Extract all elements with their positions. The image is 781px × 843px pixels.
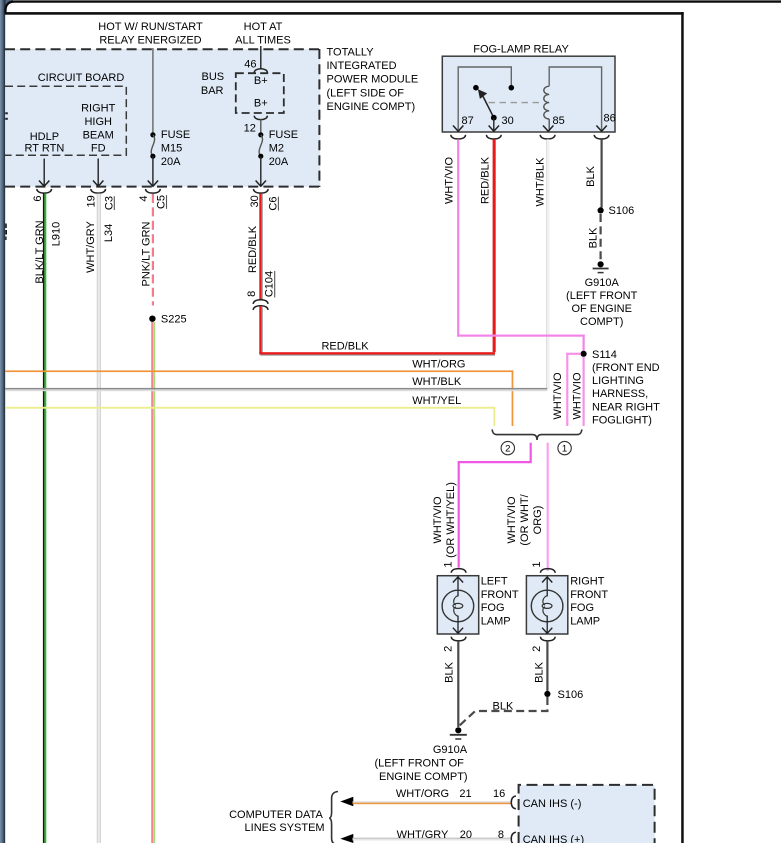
wire WHT/VIO (OR WHT/YEL) to left lamp: [459, 443, 531, 568]
svg-text:(FRONT END: (FRONT END: [592, 362, 660, 374]
wire BLK left lamp: [457, 641, 459, 727]
svg-text:C104: C104: [263, 271, 275, 297]
svg-text:LAMP: LAMP: [481, 616, 511, 628]
svg-text:FOG: FOG: [570, 602, 594, 614]
svg-text:20A: 20A: [269, 156, 289, 168]
svg-text:86: 86: [604, 113, 616, 125]
relay contact node NO: [509, 85, 515, 91]
option circle 2: [501, 441, 514, 454]
ground G910A lower: [455, 727, 461, 733]
connector arc below left lamp pin 2: [451, 637, 466, 641]
svg-text:30: 30: [249, 195, 261, 207]
svg-text:8: 8: [246, 291, 258, 297]
svg-text:FRONT: FRONT: [570, 589, 608, 601]
svg-text:BLK: BLK: [444, 661, 456, 682]
svg-text:1: 1: [531, 561, 543, 567]
svg-text:16: 16: [493, 788, 505, 800]
wire WHT/ORG horizontal rail: [5, 370, 513, 372]
svg-text:WHT/YEL: WHT/YEL: [412, 395, 461, 407]
wire S114 right branch down: [583, 357, 585, 426]
connector C104 inline symbol: [253, 300, 268, 304]
svg-text:INTEGRATED: INTEGRATED: [327, 60, 397, 72]
svg-text:2: 2: [505, 443, 510, 454]
wire fuse M2 to pin 30 arrow: [260, 156, 262, 186]
svg-text:B+: B+: [254, 75, 268, 87]
brace splice options: [492, 429, 582, 440]
svg-text:FUSE: FUSE: [161, 129, 190, 141]
svg-text:WHT/ORG: WHT/ORG: [412, 359, 465, 371]
svg-text:WHT/ORG: WHT/ORG: [396, 788, 449, 800]
relay common node pin 30: [491, 115, 497, 121]
splice S106 lower: [544, 691, 550, 697]
wire WHT/ORG corner down: [512, 370, 514, 426]
svg-text:30: 30: [502, 115, 514, 127]
wire from HOT W/ RUN/START to fuse M15: [152, 48, 154, 134]
relay switch arm: [483, 96, 494, 118]
brace computer data lines: [329, 792, 338, 843]
connector C-HDLP under TIPM: [37, 189, 52, 193]
connector arc CAN plus: [511, 832, 516, 843]
connector arc under relay pin 87: [451, 135, 466, 139]
wire RED/BLK from C6: [259, 194, 261, 300]
connector arc under relay pin 85: [540, 135, 555, 139]
svg-text:(LEFT FRONT: (LEFT FRONT: [566, 290, 638, 302]
wire WHT/GRY CAN plus: [353, 838, 511, 839]
splice S106: [598, 207, 604, 213]
svg-text:WHT/VIO: WHT/VIO: [572, 372, 584, 419]
wire HDLP RT RTN to connector: [43, 159, 45, 187]
svg-text:LINES SYSTEM: LINES SYSTEM: [245, 822, 325, 834]
svg-text:L34: L34: [103, 224, 115, 242]
svg-text:BLK: BLK: [588, 227, 600, 248]
CAN module box: [519, 785, 655, 843]
svg-text:(OR WHT/YEL): (OR WHT/YEL): [445, 482, 457, 558]
svg-text:46: 46: [244, 58, 256, 70]
wire WHT/GRY L34: [97, 194, 101, 843]
svg-text:CAN IHS (+): CAN IHS (+): [523, 834, 584, 843]
svg-text:WHT/VIO: WHT/VIO: [432, 496, 444, 543]
wire S114 left branch stub: [566, 353, 581, 355]
svg-text:M15: M15: [161, 142, 182, 154]
connector arc under relay pin 86: [594, 135, 609, 139]
circuit board dashed box: [5, 86, 126, 155]
svg-text:2: 2: [442, 646, 454, 652]
relay coil: [544, 86, 549, 119]
svg-text:ENGINE COMPT): ENGINE COMPT): [327, 101, 416, 113]
svg-text:POWER MODULE: POWER MODULE: [327, 74, 419, 86]
connector arc into bus bar: [254, 69, 267, 73]
relay internal wire coil to pin 86: [549, 67, 601, 131]
svg-text:87: 87: [462, 115, 474, 127]
bus bar B+ dashed box: [236, 73, 284, 113]
wire HOT AT ALL TIMES down to bus bar: [260, 46, 262, 69]
wire PNK/LT GRN dashed upper: [152, 194, 154, 306]
TIPM bottom dashed border: [5, 186, 320, 188]
svg-text:RED/BLK: RED/BLK: [321, 340, 369, 352]
wire bus bar to fuse M2: [260, 119, 262, 135]
svg-text:BAR: BAR: [201, 85, 224, 97]
wire WHT/VIO horizontal to S114: [457, 335, 585, 337]
svg-text:HDLP: HDLP: [30, 131, 59, 143]
svg-text:HARNESS,: HARNESS,: [592, 388, 648, 400]
diagram frame right border: [681, 12, 684, 843]
svg-text:S106: S106: [609, 205, 635, 217]
connector C3 under TIPM: [91, 189, 106, 193]
svg-text:HOT W/ RUN/START: HOT W/ RUN/START: [98, 21, 203, 33]
wire WHT/VIO (OR WHT/ORG) to right lamp: [547, 443, 549, 571]
wire WHT/BLK from pin 85: [545, 139, 548, 389]
svg-text:FOGLIGHT): FOGLIGHT): [592, 414, 652, 426]
wire WHT/YEL horizontal rail: [5, 407, 495, 409]
window dark edge strip: [0, 0, 13, 14]
option circle 1: [558, 441, 571, 454]
svg-text:FUSE: FUSE: [269, 129, 298, 141]
wire BLK/LT GRN L910: [43, 194, 45, 843]
wire fuse M15 to pin 4 arrow: [152, 156, 154, 186]
fuse F2 M2 20A: [258, 132, 263, 137]
wire BLK dashed to ground: [599, 214, 601, 261]
svg-text:85: 85: [553, 115, 565, 127]
svg-text:BLK: BLK: [585, 165, 597, 186]
svg-text:WHT/VIO: WHT/VIO: [552, 372, 564, 419]
wire BLK from pin 86: [601, 139, 603, 207]
connector arc under relay pin 30: [486, 135, 501, 139]
svg-text:RIGHT: RIGHT: [81, 103, 116, 115]
svg-text:21: 21: [459, 788, 471, 800]
svg-text:20: 20: [460, 829, 472, 841]
TIPM U1 box fill: [5, 49, 320, 187]
svg-text:RT RTN: RT RTN: [25, 143, 65, 155]
svg-text:TOTALLY: TOTALLY: [327, 47, 375, 59]
wire BLK dashed from S106 to ground: [459, 697, 547, 726]
svg-text:RED/BLK: RED/BLK: [247, 225, 259, 273]
svg-text:BUS: BUS: [201, 71, 224, 83]
svg-text:WHT/GRY: WHT/GRY: [397, 829, 449, 841]
wire WHT/VIO down to S114: [583, 335, 585, 352]
svg-text:COMPT): COMPT): [580, 316, 623, 328]
svg-text:LEFT: LEFT: [481, 575, 508, 587]
svg-text:S114: S114: [592, 349, 617, 361]
relay contact node NC: [473, 85, 479, 91]
relay internal wire coil to pin 85: [548, 119, 550, 131]
svg-text:PNK/LT GRN: PNK/LT GRN: [141, 221, 153, 286]
splice S114: [581, 351, 587, 357]
svg-text:HIGH: HIGH: [84, 116, 112, 128]
relay linkage dashed: [489, 102, 544, 104]
svg-text:WHT/BLK: WHT/BLK: [412, 376, 462, 388]
svg-text:COMPUTER DATA: COMPUTER DATA: [229, 809, 323, 821]
wire S114 left branch down: [566, 353, 568, 426]
svg-text:1: 1: [442, 561, 454, 567]
connector arc below right lamp pin 2: [540, 637, 555, 641]
svg-text:C6: C6: [267, 197, 279, 211]
svg-text:L910: L910: [50, 222, 62, 246]
svg-text:(OR WHT/: (OR WHT/: [519, 493, 531, 545]
lamp E1 internal arrows and bulb: [457, 577, 459, 597]
svg-text:20A: 20A: [161, 156, 181, 168]
diagram frame top border: [5, 12, 684, 15]
svg-text:BLK: BLK: [493, 700, 514, 712]
wire RIGHT HIGH BEAM FD to connector: [97, 159, 99, 187]
svg-text:FOG-LAMP RELAY: FOG-LAMP RELAY: [473, 44, 569, 56]
svg-text:ENGINE COMPT): ENGINE COMPT): [379, 771, 468, 783]
svg-text:G910A: G910A: [433, 744, 468, 756]
svg-text:FD: FD: [91, 143, 106, 155]
connector arc CAN minus: [511, 796, 516, 809]
connector arc above right lamp pin 1: [540, 569, 555, 573]
svg-text:FRONT: FRONT: [481, 589, 519, 601]
connector arc above left lamp pin 1: [451, 569, 466, 573]
arrowhead CAN IHS plus: [340, 834, 353, 843]
svg-text:ALL TIMES: ALL TIMES: [235, 35, 291, 47]
svg-text:FOG: FOG: [481, 602, 505, 614]
svg-text:19: 19: [85, 195, 97, 207]
svg-text:(LEFT FRONT OF: (LEFT FRONT OF: [374, 757, 464, 769]
svg-text:LIGHTING: LIGHTING: [592, 375, 644, 387]
svg-text:LAMP: LAMP: [570, 616, 600, 628]
TIPM top dashed border: [5, 48, 320, 50]
card top border line: [5, 2, 781, 13]
svg-text:1: 1: [562, 443, 567, 454]
relay internal wire pin87 to NO contact: [458, 67, 511, 131]
wire WHT/YEL corner down: [493, 407, 495, 426]
svg-text:S106: S106: [558, 689, 584, 701]
svg-text:ORG): ORG): [532, 506, 544, 535]
svg-text:RIGHT: RIGHT: [570, 575, 605, 587]
svg-text:B+: B+: [254, 98, 268, 110]
svg-text:HOT AT: HOT AT: [244, 21, 283, 33]
svg-text:S225: S225: [161, 313, 187, 325]
fuse F1 M15 20A: [150, 132, 155, 137]
svg-text:BLK/LT GRN: BLK/LT GRN: [34, 220, 46, 283]
svg-text:BEAM: BEAM: [83, 129, 114, 141]
svg-text:(LEFT SIDE OF: (LEFT SIDE OF: [327, 87, 405, 99]
svg-text:2: 2: [531, 646, 543, 652]
svg-text:WHT/VIO: WHT/VIO: [506, 496, 518, 543]
svg-text:G910A: G910A: [585, 277, 620, 289]
svg-text:6: 6: [32, 196, 44, 202]
svg-text:C3: C3: [103, 196, 115, 210]
wire PNK/LT GRN solid lower: [151, 322, 153, 843]
svg-text:M2: M2: [269, 142, 284, 154]
lamp E2 internal arrows and bulb: [546, 577, 548, 597]
svg-text:8: 8: [498, 829, 504, 841]
svg-text:12: 12: [244, 122, 256, 134]
lamp E2 right front fog lamp box: [526, 576, 567, 634]
arrowhead CAN IHS minus: [340, 797, 353, 807]
wire RED/BLK from pin 30: [493, 139, 495, 352]
svg-text:4: 4: [138, 196, 150, 202]
svg-text:WHT/BLK: WHT/BLK: [535, 157, 547, 207]
svg-text:WHT/VIO: WHT/VIO: [444, 157, 456, 204]
svg-text:NEAR RIGHT: NEAR RIGHT: [592, 401, 660, 413]
svg-text:CAN IHS (-): CAN IHS (-): [523, 798, 582, 810]
connector C5 under TIPM: [146, 189, 161, 193]
ground G910A upper: [598, 261, 604, 267]
relay K1 box: [442, 56, 615, 132]
wire WHT/VIO from pin 87: [457, 139, 459, 336]
svg-text:OF ENGINE: OF ENGINE: [571, 303, 632, 315]
wire WHT/ORG CAN minus: [353, 801, 511, 802]
splice S225: [149, 316, 155, 322]
connector C6 under TIPM: [253, 189, 268, 193]
svg-text:C5: C5: [155, 195, 167, 209]
svg-text:BLK: BLK: [533, 661, 545, 682]
wire RED/BLK horizontal run: [259, 352, 495, 354]
svg-text:RED/BLK: RED/BLK: [480, 156, 492, 204]
wire WHT/BLK horizontal rail: [5, 388, 547, 390]
svg-text:RELAY ENERGIZED: RELAY ENERGIZED: [99, 35, 201, 47]
svg-text:WHT/GRY: WHT/GRY: [85, 220, 97, 272]
svg-text:CIRCUIT BOARD: CIRCUIT BOARD: [38, 72, 125, 84]
connector arc out of bus bar: [254, 116, 267, 120]
wire RED/BLK below C104 to corner: [259, 306, 261, 353]
TIPM right dashed border: [318, 49, 320, 187]
lamp E1 left front fog lamp box: [437, 576, 478, 634]
left edge cut marks: [5, 112, 8, 114]
wire BLK right lamp: [546, 641, 548, 691]
